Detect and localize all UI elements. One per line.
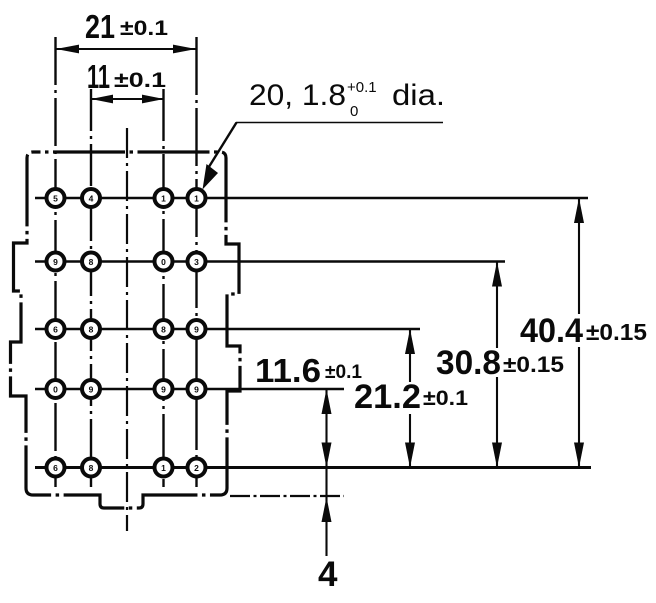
column centerline c3 xyxy=(162,89,164,487)
relay body outline xyxy=(11,152,241,508)
svg-text:8: 8 xyxy=(161,325,166,335)
dimension 30.8 +-0.15 xyxy=(492,262,502,468)
hole r2c1 xyxy=(47,253,65,271)
column centerline c2 xyxy=(90,89,92,487)
row line r4 / extension for 11.6 dim xyxy=(35,388,344,391)
svg-text:4: 4 xyxy=(89,194,94,204)
hole r4c4 xyxy=(188,380,206,398)
hole r4c1 xyxy=(47,380,65,398)
leader note: 20 holes dia 1.8 xyxy=(203,123,444,190)
svg-text:9: 9 xyxy=(89,385,94,395)
hole r2c4 xyxy=(188,253,206,271)
svg-text:30.8: 30.8 xyxy=(436,344,501,382)
hole r3c1 xyxy=(47,320,65,338)
hole r5c3 xyxy=(155,459,173,477)
row line r1 / extension for 40.4 dim xyxy=(35,197,588,200)
svg-text:0: 0 xyxy=(161,257,166,267)
svg-text:±0.1: ±0.1 xyxy=(423,387,468,410)
holes grid (20 holes) xyxy=(47,189,206,477)
hole r1c1 xyxy=(47,189,65,207)
svg-text:1: 1 xyxy=(194,194,199,204)
svg-text:0: 0 xyxy=(350,103,358,120)
dimension 11 +-0.1 xyxy=(91,95,164,104)
hole r5c4 xyxy=(188,459,206,477)
svg-text:4: 4 xyxy=(318,555,338,594)
svg-text:21: 21 xyxy=(85,8,115,45)
dimension 4 xyxy=(322,468,332,557)
svg-text:±0.15: ±0.15 xyxy=(503,352,564,377)
hole r4c3 xyxy=(155,380,173,398)
svg-text:9: 9 xyxy=(194,385,199,395)
svg-text:dia.: dia. xyxy=(392,79,445,112)
svg-text:1: 1 xyxy=(161,194,166,204)
svg-text:1: 1 xyxy=(161,463,166,473)
dimension 11.6 +-0.1 xyxy=(322,389,332,468)
svg-text:±0.1: ±0.1 xyxy=(114,69,166,92)
dimension 40.4 +-0.15 xyxy=(574,198,584,468)
svg-text:9: 9 xyxy=(53,257,58,267)
svg-text:0: 0 xyxy=(53,385,58,395)
svg-text:8: 8 xyxy=(89,325,94,335)
hole r1c2 xyxy=(82,189,100,207)
svg-text:3: 3 xyxy=(194,257,199,267)
svg-text:6: 6 xyxy=(53,325,58,335)
svg-text:8: 8 xyxy=(89,257,94,267)
svg-text:+0.1: +0.1 xyxy=(347,79,377,96)
hole r2c2 xyxy=(82,253,100,271)
svg-text:11.6: 11.6 xyxy=(255,352,321,389)
vertical centerline xyxy=(126,128,128,531)
svg-text:40.4: 40.4 xyxy=(520,312,583,350)
hole r2c3 xyxy=(155,253,173,271)
hole r5c2 xyxy=(82,459,100,477)
column centerline c1 xyxy=(54,37,56,487)
row line r5 / baseline extension xyxy=(35,466,591,469)
svg-text:5: 5 xyxy=(53,194,58,204)
dimension 21.2 +-0.1 xyxy=(405,329,415,468)
dimension 21 +-0.1 xyxy=(56,45,196,54)
hole r1c4 xyxy=(188,189,206,207)
hole r3c3 xyxy=(155,320,173,338)
svg-text:8: 8 xyxy=(89,463,94,473)
svg-text:11: 11 xyxy=(87,58,110,95)
svg-text:2: 2 xyxy=(194,463,199,473)
svg-text:9: 9 xyxy=(161,385,166,395)
svg-text:±0.1: ±0.1 xyxy=(120,17,168,40)
row line r2 / extension for 30.8 dim xyxy=(35,260,505,263)
svg-text:±0.15: ±0.15 xyxy=(586,319,647,345)
hole r1c3 xyxy=(155,189,173,207)
svg-text:9: 9 xyxy=(194,325,199,335)
svg-text:±0.1: ±0.1 xyxy=(325,362,362,383)
column centerline c4 xyxy=(195,37,197,487)
hole r5c1 xyxy=(47,459,65,477)
hole r3c4 xyxy=(188,320,206,338)
bottom edge extension line for 4 dim xyxy=(230,495,344,497)
svg-text:21.2: 21.2 xyxy=(354,378,421,416)
svg-text:6: 6 xyxy=(53,463,58,473)
svg-text:20, 1.8: 20, 1.8 xyxy=(249,79,346,112)
hole r4c2 xyxy=(82,380,100,398)
row line r3 / extension for 21.2 dim xyxy=(35,328,420,331)
hole r3c2 xyxy=(82,320,100,338)
